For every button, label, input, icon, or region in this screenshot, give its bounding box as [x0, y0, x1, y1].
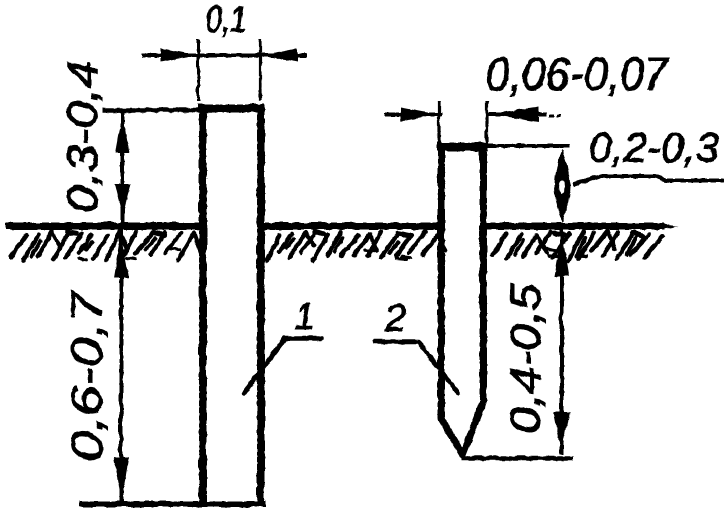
svg-text:0,3-0,4: 0,3-0,4	[58, 60, 106, 212]
svg-text:0,06-0,07: 0,06-0,07	[485, 47, 668, 99]
svg-text:0,6-0,7: 0,6-0,7	[62, 289, 111, 461]
svg-text:1: 1	[294, 295, 314, 336]
svg-text:2: 2	[383, 297, 405, 339]
svg-text:0,2-0,3: 0,2-0,3	[588, 123, 718, 170]
svg-text:0,4-0,5: 0,4-0,5	[501, 282, 549, 433]
svg-text:0,1: 0,1	[205, 0, 246, 39]
